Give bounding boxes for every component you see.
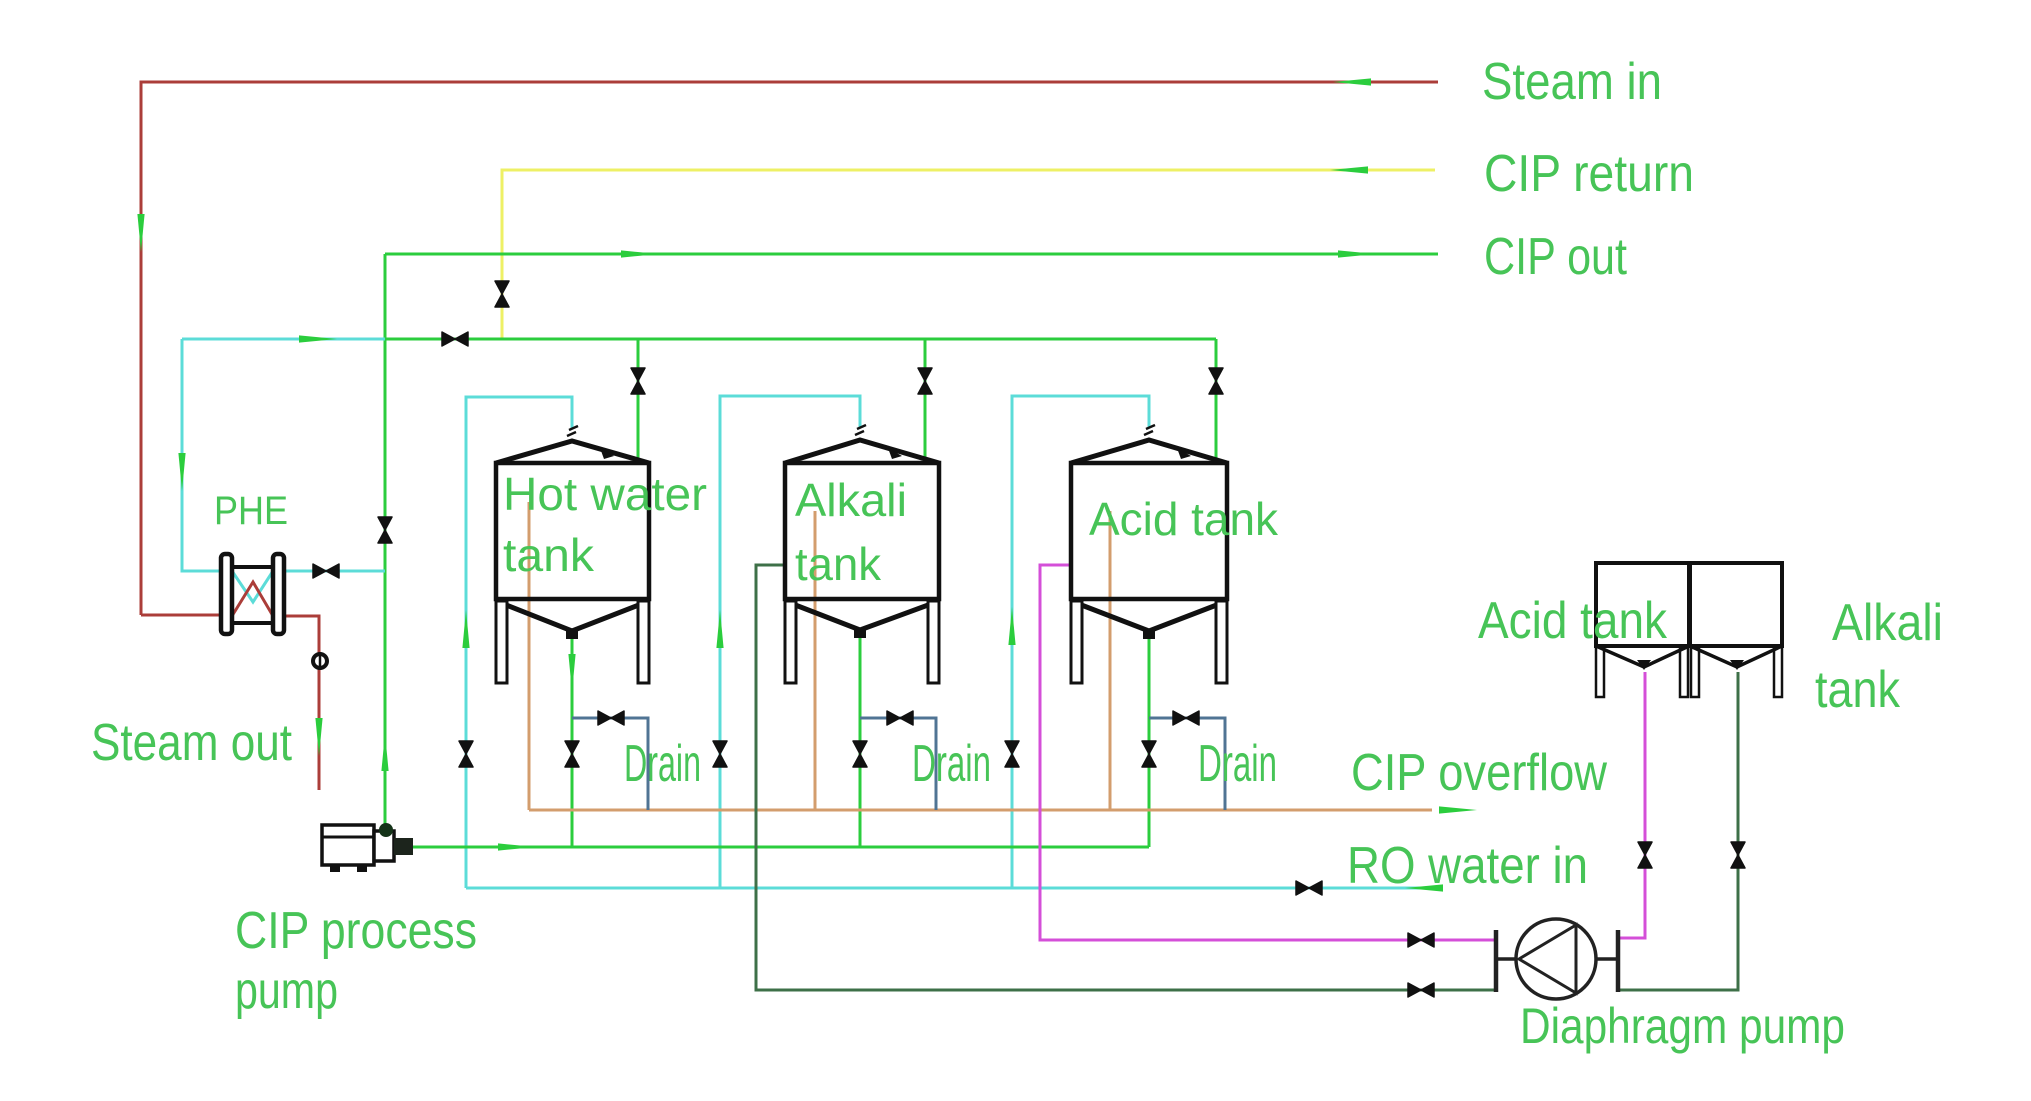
valve: CIP return line	[495, 281, 509, 307]
svg-text:tank: tank	[503, 529, 595, 581]
svg-text:tank: tank	[795, 538, 882, 590]
wire: steam supply red top horizontal	[141, 82, 1438, 615]
valve: header bowtie	[442, 332, 468, 346]
svg-text:Alkali: Alkali	[1832, 594, 1943, 652]
svg-text:Hot water: Hot water	[503, 468, 707, 520]
valve: dark green suction	[1408, 983, 1434, 997]
arrow: RO water in flow left	[1405, 884, 1443, 891]
svg-text:pump: pump	[235, 962, 338, 1020]
wire: green tank outlet acid	[1148, 639, 1151, 847]
wire: cyan feed loop hot water tank	[466, 397, 572, 888]
wire: drain pipe acid	[1149, 718, 1225, 810]
wire: drain pipe hot water	[572, 718, 648, 810]
arrow: cyan riser 2 up	[716, 610, 723, 648]
svg-text:Alkali: Alkali	[795, 474, 907, 526]
wire: green drop to alkali tank roof	[924, 339, 927, 459]
wire: main header green part	[385, 338, 1216, 341]
valve: PHE hot water outlet	[313, 564, 339, 578]
wire: orange CIP overflow header	[529, 809, 1432, 812]
valve: cyan riser hot water	[459, 741, 473, 767]
svg-text:Acid tank: Acid tank	[1089, 493, 1279, 545]
valve: outlet hot water	[565, 741, 579, 767]
valve: drain alkali	[887, 711, 913, 725]
wire: dark green alkali dosing from alkali tank	[756, 565, 1494, 990]
svg-text:RO water in: RO water in	[1347, 837, 1588, 895]
valve: green drop hot water	[631, 368, 645, 394]
PHE plate heat exchanger	[221, 554, 284, 634]
wire: orange overflow standpipe alkali	[814, 511, 817, 810]
arrow: CIP return flow left	[1330, 166, 1368, 173]
valve: green drop acid	[1209, 368, 1223, 394]
arrow: pump discharge right	[498, 843, 536, 850]
wire: orange overflow standpipe hot water	[528, 502, 531, 810]
arrow: cyan riser 1 up	[462, 610, 469, 648]
wire: green tank outlet alkali	[859, 638, 862, 847]
hot water tank	[496, 426, 649, 683]
svg-text:Steam out: Steam out	[91, 714, 292, 772]
arrow: CIP out flow right end	[1338, 250, 1376, 257]
svg-text:Acid tank: Acid tank	[1478, 592, 1668, 650]
steam trap circle	[313, 654, 327, 668]
wire: green drop to acid tank roof	[1215, 339, 1218, 460]
wire: main header cyan left part	[182, 338, 385, 341]
svg-text:CIP return: CIP return	[1484, 145, 1694, 203]
wire: CIP out green	[385, 253, 1438, 256]
arrow: CIP overflow right	[1439, 806, 1477, 813]
wire: cyan PHE outlet to green riser	[283, 570, 385, 573]
svg-text:tank: tank	[1815, 661, 1901, 719]
svg-text:CIP process: CIP process	[235, 902, 477, 960]
diaphragm pump	[1496, 919, 1618, 999]
acid tank	[1071, 425, 1227, 683]
valve: outlet acid	[1142, 741, 1156, 767]
small acid tank (right)	[1596, 563, 1689, 697]
valve: RO water inlet	[1296, 881, 1322, 895]
wire: cyan feed loop acid tank	[1012, 396, 1149, 888]
wire: cyan feed loop alkali tank	[720, 396, 860, 888]
arrow: cyan riser 3 up	[1008, 607, 1015, 645]
small alkali tank (right)	[1690, 563, 1782, 697]
wire: green pump discharge bottom header	[413, 846, 1149, 849]
wire: green tank outlet hot water	[571, 639, 574, 847]
valve: small acid tank feed	[1638, 842, 1652, 868]
arrow: header cyan flow right	[299, 335, 337, 342]
valve: magenta suction	[1408, 933, 1434, 947]
wire: CIP return yellow	[502, 170, 1435, 339]
svg-text:Drain: Drain	[1198, 735, 1277, 793]
svg-text:Drain: Drain	[912, 735, 991, 793]
valve: cyan riser alkali	[713, 741, 727, 767]
arrow: hot water outlet down	[568, 654, 575, 692]
wire: dark green pump outlet to small alkali tank	[1618, 672, 1738, 990]
arrow: steam red vertical down	[137, 214, 144, 252]
alkali tank	[785, 425, 939, 683]
svg-text:CIP out: CIP out	[1484, 228, 1627, 286]
wire: magenta pump outlet to small acid tank	[1618, 672, 1645, 938]
valve: drain acid	[1173, 711, 1199, 725]
arrow: cyan PHE feed down	[178, 453, 185, 491]
wire: RO water cyan bottom header	[466, 887, 1442, 890]
wire: cyan down to PHE	[182, 339, 222, 571]
arrow: steam out down	[315, 718, 322, 756]
svg-text:PHE: PHE	[214, 489, 288, 533]
valve: small alkali tank feed	[1731, 842, 1745, 868]
valve: drain hot water	[598, 711, 624, 725]
arrow: CIP out flow right mid	[621, 250, 659, 257]
valve: outlet alkali	[853, 741, 867, 767]
wire: orange overflow standpipe acid	[1109, 511, 1112, 810]
wire: steam red into PHE	[141, 614, 222, 617]
wire: drain pipe alkali	[860, 718, 936, 810]
svg-text:CIP overflow: CIP overflow	[1351, 744, 1607, 802]
arrow: steam in flow left	[1333, 78, 1371, 85]
svg-text:Steam in: Steam in	[1482, 53, 1662, 111]
arrow: CIP supply riser up	[381, 733, 388, 771]
wire: CIP supply riser green vertical	[384, 254, 387, 828]
CIP process pump	[322, 823, 413, 872]
valve: green drop alkali	[918, 368, 932, 394]
svg-text:Diaphragm pump: Diaphragm pump	[1520, 998, 1845, 1054]
wire: steam red out of PHE down to steam out	[283, 616, 319, 790]
valve: CIP supply riser	[378, 517, 392, 543]
svg-text:Drain: Drain	[624, 735, 701, 793]
wire: green drop to hot water tank roof	[637, 339, 640, 458]
valve: cyan riser acid	[1005, 741, 1019, 767]
wire: magenta acid dosing from acid tank	[1040, 565, 1494, 940]
